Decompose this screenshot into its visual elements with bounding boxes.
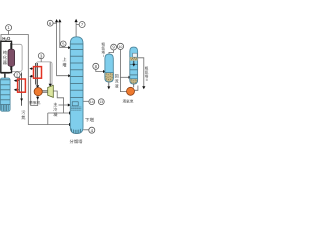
svg-text:14: 14 <box>90 100 94 104</box>
svg-text:II: II <box>146 78 148 82</box>
svg-text:10: 10 <box>119 45 123 49</box>
svg-text:H2O: H2O <box>2 36 11 42</box>
svg-text:分馏塔: 分馏塔 <box>70 139 84 144</box>
svg-text:下塔: 下塔 <box>85 118 95 123</box>
svg-text:I: I <box>103 54 104 58</box>
svg-text:塔: 塔 <box>62 62 67 67</box>
svg-text:13: 13 <box>99 100 103 104</box>
svg-text:膨胀机: 膨胀机 <box>29 100 40 105</box>
svg-text:液氩泵: 液氩泵 <box>122 99 133 104</box>
svg-text:液: 液 <box>115 84 119 89</box>
svg-text:上: 上 <box>62 57 67 62</box>
